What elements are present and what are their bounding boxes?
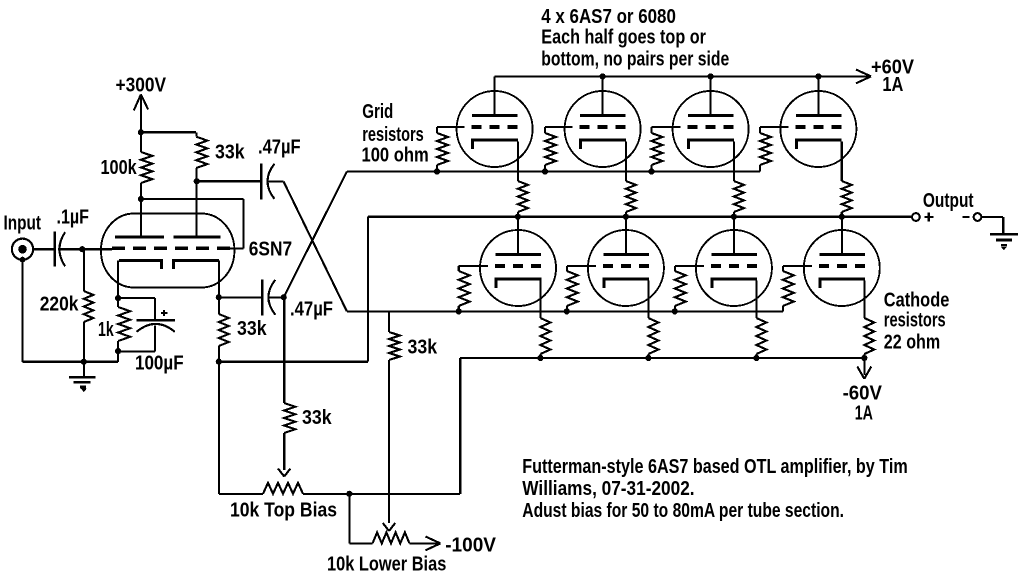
tube V5 lower 6AS7 envelope — [480, 230, 556, 306]
tube V6 lower 6AS7 anode — [603, 253, 649, 256]
junction bias rail node — [346, 491, 352, 497]
junction 1k bottom node — [115, 348, 121, 354]
junction +300V node — [138, 129, 144, 135]
wire bias to -60V riser — [459, 358, 461, 494]
capacitor C4 .47uF bottom — [261, 279, 263, 315]
wire V2 anode to +60V — [602, 76, 604, 116]
wire V4 anode to +60V — [817, 76, 819, 116]
junction right plate node — [194, 178, 200, 184]
resistor V5 grid 100 ohm — [458, 266, 460, 271]
tube V7 lower 6AS7 envelope — [696, 230, 772, 306]
wire jack ground drop — [21, 260, 23, 362]
svg-text:1A: 1A — [855, 402, 873, 424]
svg-text:Williams, 07-31-2002.: Williams, 07-31-2002. — [522, 478, 694, 500]
tube V4 upper 6AS7 anode — [796, 114, 842, 117]
tube V1 upper 6AS7 anode — [472, 114, 517, 117]
wire lower bias lead — [349, 542, 372, 544]
capacitor C1 .1uF — [53, 232, 55, 267]
wire right grid stub — [230, 247, 244, 249]
resistor V7 cathode 22 ohm — [755, 280, 757, 318]
wire bias rail left — [219, 493, 263, 495]
U1 left anode — [115, 236, 164, 239]
svg-text:1k: 1k — [98, 319, 114, 341]
wire V1 grid stub — [437, 126, 465, 128]
wire V6 grid stub — [567, 265, 596, 267]
tube V2 upper 6AS7 cathode — [581, 140, 626, 149]
power +60V arrow — [856, 70, 871, 77]
C3 plus sign — [161, 312, 167, 314]
wire crossover to lower bus — [284, 181, 347, 311]
resistor V1 grid 100 ohm — [436, 127, 438, 133]
svg-text:Each half goes top or: Each half goes top or — [541, 27, 706, 49]
tube V7 lower 6AS7 cathode — [712, 279, 757, 288]
wire +300V to 33k — [141, 131, 196, 133]
wire left bias drop — [218, 362, 220, 494]
junction +60V rail V2 — [600, 73, 606, 79]
wire -60V bus — [460, 357, 864, 359]
svg-text:Output: Output — [923, 190, 974, 212]
tube V8 lower 6AS7 envelope — [804, 230, 880, 306]
wire jack to C1 — [33, 248, 54, 250]
tube U1 6SN7 envelope — [101, 214, 234, 288]
wire to -100V — [410, 542, 439, 544]
svg-text:10k Lower Bias: 10k Lower Bias — [327, 553, 446, 575]
svg-text:33k: 33k — [408, 337, 438, 359]
wire V1 anode to +60V — [494, 76, 496, 116]
wire V5 grid stub — [459, 265, 488, 267]
resistor 33k line A — [283, 297, 285, 403]
tube V1 upper 6AS7 envelope — [457, 91, 533, 167]
tube V2 upper 6AS7 envelope — [565, 91, 641, 167]
wire V5 anode to output bus — [517, 217, 519, 256]
wire lower bias drop — [348, 494, 350, 544]
tube V4 upper 6AS7 envelope — [780, 91, 856, 167]
power -100V arrow — [426, 537, 441, 544]
junction output bus V4 — [839, 214, 845, 220]
resistor V3 cathode 22 ohm — [733, 141, 735, 181]
tube V1 upper 6AS7 grid dashes — [472, 125, 482, 129]
junction left cathode node — [115, 295, 121, 301]
junction input node — [79, 246, 85, 252]
wire C2 out — [267, 180, 284, 182]
resistor V4 grid 100 ohm — [759, 127, 761, 133]
tube V4 upper 6AS7 grid dashes — [795, 125, 805, 129]
svg-text:+300V: +300V — [116, 74, 167, 96]
input jack J1 — [12, 239, 33, 260]
wire V3 grid stub — [652, 126, 681, 128]
wire output bus — [368, 215, 912, 218]
junction -60V bus V6 — [645, 355, 651, 361]
tube V6 lower 6AS7 envelope — [588, 230, 664, 306]
junction -60V bus V8 — [861, 355, 867, 361]
junction output bus V3 — [731, 214, 737, 220]
svg-text:-60V: -60V — [843, 382, 883, 404]
junction ground node — [81, 359, 87, 365]
U1 right anode — [174, 236, 221, 239]
tube V5 lower 6AS7 grid dashes — [495, 264, 505, 268]
resistor 33k cathode — [218, 297, 220, 314]
resistor V6 grid 100 ohm — [566, 266, 568, 271]
wire 1k bottom — [117, 351, 119, 362]
capacitor C3 100uF plates — [137, 319, 175, 322]
svg-text:Futterman-style 6AS7 based OTL: Futterman-style 6AS7 based OTL amplifier… — [522, 456, 907, 478]
ground GND2 — [990, 233, 1018, 236]
junction C4 out node — [281, 294, 287, 300]
svg-text:100k: 100k — [101, 157, 138, 179]
resistor V6 cathode 22 ohm — [647, 280, 649, 318]
wire right grid drop — [242, 199, 244, 248]
svg-text:bottom, no pairs per side: bottom, no pairs per side — [541, 49, 729, 71]
junction left plate node — [138, 196, 144, 202]
junction +60V rail V3 — [708, 73, 714, 79]
resistor 220k — [83, 249, 85, 291]
U1 grid dashes — [112, 247, 125, 250]
junction +60V rail V4 — [815, 73, 821, 79]
tube V5 lower 6AS7 anode — [496, 253, 542, 256]
junction -60V bus V7 — [753, 355, 759, 361]
wire ground rail — [23, 361, 119, 363]
resistor V4 cathode 22 ohm — [841, 141, 843, 181]
wire output minus to ground — [981, 216, 1003, 218]
power -60V arrow — [863, 358, 865, 375]
tube V6 lower 6AS7 grid dashes — [603, 264, 613, 268]
tube V7 lower 6AS7 anode — [711, 253, 757, 256]
svg-text:Cathode: Cathode — [884, 290, 950, 312]
tube V6 lower 6AS7 cathode — [604, 279, 649, 288]
svg-text:4 x 6AS7 or 6080: 4 x 6AS7 or 6080 — [541, 6, 676, 28]
resistor V2 cathode 22 ohm — [625, 141, 627, 181]
wire C1 to grid — [58, 248, 112, 250]
junction grid bus V7 — [672, 308, 678, 314]
ground GND1 — [83, 362, 85, 376]
wire lower grid bus — [347, 310, 783, 312]
svg-text:resistors: resistors — [884, 310, 946, 332]
resistor 33k line B — [388, 311, 390, 332]
tube V8 lower 6AS7 anode — [819, 253, 865, 256]
wire 33k node to riser — [219, 360, 368, 362]
resistor 100k — [140, 132, 142, 152]
tube V2 upper 6AS7 grid dashes — [580, 125, 590, 129]
wire V7 anode to output bus — [733, 217, 735, 256]
potentiometer 10k Lower Bias — [373, 532, 410, 543]
tube V5 lower 6AS7 cathode — [496, 279, 541, 288]
resistor V8 grid 100 ohm — [782, 266, 784, 271]
svg-text:100 ohm: 100 ohm — [362, 145, 429, 167]
junction grid bus V3 — [648, 168, 654, 174]
svg-text:100µF: 100µF — [135, 353, 184, 375]
tube V7 lower 6AS7 grid dashes — [711, 264, 721, 268]
wire output bus left drop — [367, 217, 369, 362]
junction grid bus V5 — [456, 308, 462, 314]
svg-text:33k: 33k — [215, 142, 245, 164]
svg-text:.1µF: .1µF — [57, 207, 90, 229]
wire V2 grid stub — [545, 126, 573, 128]
resistor V8 cathode 22 ohm — [863, 280, 865, 318]
wire upper grid bus — [347, 170, 760, 172]
junction grid bus V1 — [434, 168, 440, 174]
svg-text:-100V: -100V — [445, 534, 496, 556]
svg-text:33k: 33k — [302, 407, 332, 429]
capacitor C3 100uF leads — [118, 297, 155, 299]
resistor V5 cathode 22 ohm — [539, 280, 541, 318]
wire V8 anode to output bus — [841, 217, 843, 256]
junction output bus V1 — [515, 214, 521, 220]
tube V8 lower 6AS7 grid dashes — [819, 264, 829, 268]
resistor V1 cathode 22 ohm — [517, 141, 519, 181]
U1 left cathode — [119, 261, 161, 269]
U1 right cathode — [174, 261, 219, 269]
wire V6 anode to output bus — [625, 217, 627, 256]
tube V3 upper 6AS7 envelope — [673, 91, 749, 167]
power +300V arrow — [140, 96, 142, 132]
wire plate to right grid — [141, 198, 244, 200]
wire V4 grid stub — [760, 126, 788, 128]
svg-text:Grid: Grid — [362, 101, 393, 123]
output minus sign — [963, 216, 970, 218]
output terminal minus — [974, 213, 982, 221]
resistor V2 grid 100 ohm — [544, 127, 546, 133]
resistor V7 grid 100 ohm — [674, 266, 676, 271]
svg-text:resistors: resistors — [362, 124, 424, 146]
wire V8 grid stub — [783, 265, 812, 267]
svg-text:10k Top Bias: 10k Top Bias — [230, 499, 337, 521]
wire crossover to upper bus — [284, 172, 347, 298]
wire bias rail mid — [303, 493, 460, 495]
capacitor C2 .47uF top — [260, 163, 262, 199]
junction output bus V2 — [623, 214, 629, 220]
tube V8 lower 6AS7 cathode — [820, 279, 865, 288]
output terminal plus — [912, 213, 920, 221]
svg-text:6SN7: 6SN7 — [249, 239, 292, 261]
junction grid bus V2 — [542, 168, 548, 174]
wire plate node to C2 — [197, 180, 262, 182]
svg-text:220k: 220k — [40, 293, 80, 315]
wire V3 anode to +60V — [710, 76, 712, 116]
tube V3 upper 6AS7 grid dashes — [688, 125, 698, 129]
junction jack ground — [20, 257, 26, 263]
tube V3 upper 6AS7 cathode — [689, 140, 734, 149]
pot wiper arrow top bias — [278, 469, 284, 477]
junction right cathode node — [216, 294, 222, 300]
resistor 33k plate load — [195, 132, 197, 136]
pot wiper arrow lower bias — [383, 523, 389, 531]
tube V4 upper 6AS7 cathode — [796, 140, 841, 149]
svg-text:33k: 33k — [237, 318, 267, 340]
svg-text:Input: Input — [4, 213, 42, 235]
junction 33k bottom node — [216, 359, 222, 365]
resistor V3 grid 100 ohm — [650, 127, 652, 133]
svg-text:.47µF: .47µF — [290, 299, 333, 321]
tube V3 upper 6AS7 anode — [688, 114, 734, 117]
svg-text:1A: 1A — [882, 74, 903, 96]
wire +60V rail — [495, 75, 869, 77]
wire V7 grid stub — [675, 265, 704, 267]
resistor 1k — [117, 298, 119, 307]
tube V2 upper 6AS7 anode — [580, 114, 626, 117]
junction grid bus V6 — [564, 308, 570, 314]
tube V1 upper 6AS7 cathode — [473, 140, 518, 149]
wire cathode to C4 — [219, 296, 262, 298]
output plus sign — [924, 216, 933, 218]
svg-text:Adust bias for 50 to 80mA per: Adust bias for 50 to 80mA per tube secti… — [522, 500, 844, 522]
svg-text:.47µF: .47µF — [258, 136, 301, 158]
junction -60V bus V5 — [537, 355, 543, 361]
svg-text:22 ohm: 22 ohm — [884, 331, 940, 353]
potentiometer 10k Top Bias — [263, 483, 303, 494]
wire C4 out — [268, 296, 284, 298]
